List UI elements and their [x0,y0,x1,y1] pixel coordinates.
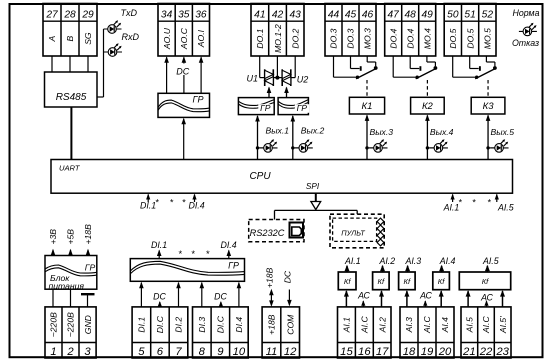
svg-text:DI.1: DI.1 [137,317,147,333]
svg-text:27: 27 [45,9,58,20]
svg-text:DC: DC [153,291,166,301]
svg-text:АI.1: АI.1 [344,256,361,266]
svg-text:49: 49 [422,9,434,20]
svg-text:DI.4: DI.4 [221,240,237,250]
svg-text:АС: АС [357,291,370,301]
svg-text:АI.2: АI.2 [379,256,396,266]
svg-text:42: 42 [272,9,284,20]
svg-text:U2: U2 [297,74,309,84]
svg-text:GND: GND [83,315,93,334]
svg-text:К1: К1 [362,101,373,112]
svg-text:Вых.4: Вых.4 [430,127,454,137]
svg-text:6: 6 [157,346,164,358]
svg-text:~220В: ~220В [49,312,59,337]
svg-text:DO.3: DO.3 [346,28,356,48]
svg-text:9: 9 [217,346,224,358]
svg-text:DI.C: DI.C [216,315,226,333]
svg-text:Отказ: Отказ [512,38,539,48]
svg-text:DI.2: DI.2 [174,317,184,333]
svg-text:*: * [206,249,210,260]
svg-text:+18В: +18В [267,314,277,335]
svg-text:+18В: +18В [83,224,93,245]
svg-text:Кf: Кf [344,277,351,286]
svg-text:7: 7 [175,346,182,358]
svg-text:*: * [170,198,174,208]
svg-text:*: * [179,249,183,260]
svg-text:АI.5: АI.5 [465,317,475,334]
svg-text:Кf: Кf [482,277,489,286]
svg-text:50: 50 [447,9,459,20]
svg-text:К2: К2 [422,101,434,112]
svg-text:*: * [156,198,160,208]
svg-text:~220В: ~220В [66,312,76,337]
svg-text:DI.4: DI.4 [234,317,244,333]
svg-text:MO.3: MO.3 [363,28,373,49]
svg-text:АI.2: АI.2 [377,317,387,334]
svg-text:36: 36 [195,9,207,20]
svg-text:11: 11 [266,346,278,358]
svg-text:35: 35 [178,9,190,20]
svg-text:питания: питания [49,281,85,291]
svg-text:5: 5 [138,346,145,358]
svg-text:8: 8 [199,346,206,358]
svg-text:TxD: TxD [121,8,138,18]
svg-text:SPI: SPI [306,182,320,191]
svg-text:+18В: +18В [264,267,274,288]
svg-text:+3В: +3В [48,229,58,245]
svg-text:АI.3: АI.3 [405,256,422,266]
svg-text:AO.C: AO.C [179,27,189,50]
svg-text:17: 17 [376,346,389,358]
svg-text:23: 23 [495,346,509,358]
svg-text:АС: АС [419,291,432,301]
svg-text:29: 29 [81,9,94,20]
svg-text:*: * [182,198,186,208]
svg-text:*: * [459,198,463,208]
svg-text:AI.5: AI.5 [497,203,514,213]
svg-text:АI.4: АI.4 [440,317,450,334]
svg-text:12: 12 [284,346,297,358]
svg-text:21: 21 [462,346,476,358]
svg-text:15: 15 [340,346,353,358]
svg-text:SG: SG [83,32,93,45]
svg-text:41: 41 [254,9,265,20]
svg-text:Вых.5: Вых.5 [491,127,515,137]
svg-text:Вых.2: Вых.2 [301,125,325,135]
svg-text:52: 52 [482,9,494,20]
svg-text:DC: DC [176,67,189,77]
svg-text:DC: DC [282,270,292,283]
svg-text:Вых.3: Вых.3 [370,127,394,137]
svg-text:1: 1 [50,346,56,358]
svg-text:DO.2: DO.2 [290,28,300,48]
svg-text:*: * [488,198,492,208]
svg-text:ПУЛЬТ: ПУЛЬТ [341,228,365,237]
svg-text:АI.5: АI.5 [482,256,499,266]
svg-text:28: 28 [63,9,76,20]
svg-text:DI.4: DI.4 [189,200,205,210]
svg-text:ГР: ГР [193,94,204,104]
svg-text:MO.1-2: MO.1-2 [273,24,283,53]
svg-text:22: 22 [479,346,493,358]
svg-text:46: 46 [362,9,374,20]
svg-text:RxD: RxD [122,32,140,42]
svg-text:АI.5': АI.5' [498,316,508,334]
svg-text:20: 20 [438,346,452,358]
svg-text:К3: К3 [483,101,495,112]
svg-text:43: 43 [290,9,302,20]
svg-text:АI.3: АI.3 [404,317,414,334]
svg-text:U1: U1 [247,73,259,83]
svg-text:ГР: ГР [85,262,96,272]
svg-text:АС: АС [480,293,493,303]
svg-text:ГР: ГР [297,103,308,113]
svg-text:47: 47 [388,9,400,20]
svg-text:51: 51 [464,9,475,20]
svg-text:DI.1: DI.1 [140,200,156,210]
svg-text:3: 3 [84,346,91,358]
svg-text:AI.1: AI.1 [443,203,460,213]
svg-text:10: 10 [233,346,246,358]
svg-text:АI.С: АI.С [481,316,491,335]
svg-text:45: 45 [345,9,357,20]
svg-text:MO.5: MO.5 [483,28,493,49]
svg-text:UART: UART [59,163,81,172]
svg-text:RS232C: RS232C [250,228,285,238]
svg-text:16: 16 [358,346,371,358]
svg-text:DC: DC [214,291,227,301]
svg-text:АI.4: АI.4 [439,256,456,266]
svg-text:АI.1: АI.1 [342,317,352,334]
svg-text:Кf: Кf [438,277,445,286]
svg-text:DO.5: DO.5 [448,28,458,48]
svg-text:2: 2 [66,346,74,358]
svg-text:48: 48 [405,9,417,20]
svg-text:COM: COM [285,314,295,335]
svg-text:Норма: Норма [513,8,540,18]
svg-text:34: 34 [161,9,173,20]
svg-text:AO.I: AO.I [196,29,206,48]
svg-text:CPU: CPU [249,171,271,182]
svg-text:*: * [472,198,476,208]
svg-text:ГР: ГР [228,260,239,270]
svg-text:DO.4: DO.4 [388,28,398,48]
svg-text:DI.3: DI.3 [197,317,207,333]
svg-text:19: 19 [421,346,434,358]
svg-text:B: B [65,35,75,41]
svg-text:DI.1: DI.1 [151,240,167,250]
svg-text:DI.C: DI.C [155,315,165,333]
svg-text:44: 44 [328,9,340,20]
svg-text:DO.5: DO.5 [465,28,475,48]
svg-text:ГР: ГР [260,103,271,113]
svg-text:Кf: Кf [378,277,385,286]
svg-text:АI.С: АI.С [360,316,370,335]
svg-text:DO.4: DO.4 [405,28,415,48]
svg-text:+5В: +5В [66,229,76,245]
svg-text:A: A [47,35,57,42]
svg-text:*: * [191,249,195,260]
svg-text:RS485: RS485 [56,92,87,103]
svg-text:18: 18 [403,346,416,358]
svg-text:DO.1: DO.1 [255,28,265,48]
svg-text:DO.3: DO.3 [329,28,339,48]
svg-text:AO.U: AO.U [162,27,172,50]
svg-text:Вых.1: Вых.1 [266,125,290,135]
svg-text:АI.С: АI.С [422,316,432,335]
svg-text:MO.4: MO.4 [422,28,432,49]
svg-text:Кf: Кf [404,277,411,286]
